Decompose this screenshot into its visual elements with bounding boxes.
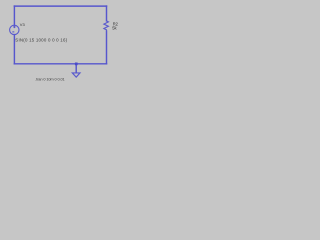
wire left upper: [13, 6, 15, 25]
wire right upper: [106, 6, 108, 21]
svg-text:V3: V3: [20, 22, 26, 27]
wire top: [14, 5, 106, 7]
wire ground stub: [75, 64, 77, 73]
resistor R2: [104, 21, 109, 31]
wire left lower: [13, 35, 15, 64]
wire right lower: [106, 31, 108, 64]
svg-text:.tran 0 10m 0 0.01: .tran 0 10m 0 0.01: [35, 76, 64, 81]
voltage source V3: [10, 25, 19, 34]
junction node: [75, 63, 78, 66]
ground: [72, 73, 80, 77]
svg-text:SIN(0 15 1000 0 0 0 16): SIN(0 15 1000 0 0 0 16): [15, 38, 67, 43]
wire bottom: [14, 63, 106, 65]
